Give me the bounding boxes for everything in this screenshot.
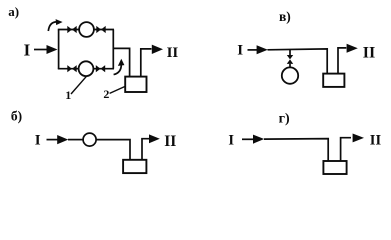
label 1 with leader (a) [65,76,87,102]
svg-text:II: II [363,45,375,62]
rotation arrow bottom-right (a) [114,59,125,75]
svg-text:I: I [228,133,234,149]
svg-text:II: II [164,133,176,150]
svg-text:II: II [370,132,382,148]
wire box to output (a) [141,49,152,77]
arrowhead output (v) [347,44,358,53]
arrowhead output (g) [353,134,364,143]
box element 2 (v) [323,74,344,87]
box element 2 (b) [123,160,146,173]
wire input arrow line (v) [248,49,259,51]
box element 2 (g) [323,161,346,174]
valve top-left (a) [67,26,76,33]
box element 2 (a) [125,77,146,92]
pump top circle 1 (a) [79,22,94,37]
valve bottom-right (a) [96,65,105,72]
svg-text:II: II [167,45,179,61]
wire input arrow line (a) [34,49,48,51]
arrowhead output (a) [152,45,163,54]
wire pump to box (b) [96,140,130,160]
wire loop left vertical (a) [58,30,60,69]
wire input arrow line (b) [47,139,59,141]
svg-text:I: I [35,133,41,149]
wire box to output (v) [338,48,346,74]
svg-text:1: 1 [65,88,71,102]
wire top branch (a) [58,29,114,31]
gauge circle (v) [282,67,298,83]
svg-text:в): в) [279,9,291,24]
arrowhead input (v) [257,45,268,54]
svg-text:2: 2 [103,87,109,101]
wire stub to check valve (v) [289,49,291,55]
wire box to output (b) [142,139,150,160]
svg-text:I: I [24,41,31,60]
wire valve to gauge (v) [289,64,291,68]
wire loop right vertical (a) [112,30,114,69]
arrowhead output (b) [149,134,160,143]
wire bottom branch (a) [58,68,114,70]
wire main line to box (g) [264,139,328,162]
arrowhead input (g) [253,135,264,144]
arrowhead input (a) [47,45,58,54]
valve bottom-left (a) [67,65,76,72]
svg-text:I: I [237,43,243,59]
svg-text:а): а) [8,4,19,19]
arrowhead input (b) [57,135,68,144]
valve top-right (a) [96,26,105,33]
wire input arrow line (g) [242,138,254,140]
wire to pump (b) [68,139,83,141]
rotation arrow top-left (a) [48,19,62,31]
wire tap from loop to box (a) [113,48,129,76]
pump circle (b) [83,133,96,146]
wire main line to box (v) [268,49,328,74]
svg-text:г): г) [279,111,290,126]
wire box to output (g) [341,138,351,161]
pump bottom circle 1 (a) [79,61,94,76]
label 2 with leader (a) [103,86,125,101]
check valve (v) [287,55,293,64]
svg-text:б): б) [11,109,22,124]
